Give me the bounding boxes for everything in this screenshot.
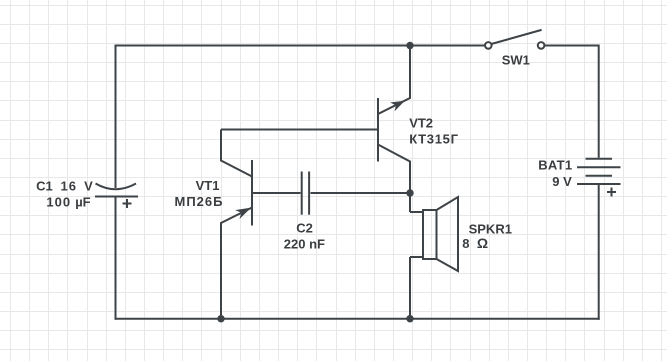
node A junction C2 / VT2 bottom lead / speaker: [406, 189, 413, 196]
wire left rail lower (C1 bottom plate to bottom rail): [115, 197, 117, 320]
svg-text:Ω: Ω: [477, 235, 488, 251]
svg-text:9 V: 9 V: [552, 174, 572, 189]
svg-text:VT2: VT2: [409, 115, 433, 130]
svg-text:МП26Б: МП26Б: [175, 194, 224, 209]
node junction VT1 emitter / bottom rail: [217, 315, 224, 322]
svg-text:µF: µF: [75, 194, 90, 209]
svg-text:BAT1: BAT1: [538, 158, 572, 173]
svg-text:SPKR1: SPKR1: [469, 221, 512, 236]
wire left rail upper (top rail to C1 top plate): [115, 45, 117, 189]
wire speaker to bottom rail: [409, 257, 411, 320]
wire VT1 collector to VT2 base: [221, 129, 378, 131]
wire right rail lower (BAT1 bottom plate to bottom rail): [598, 184, 600, 320]
node junction speaker / bottom rail: [406, 315, 413, 322]
svg-text:VT1: VT1: [196, 178, 220, 193]
svg-text:V: V: [84, 178, 93, 193]
value label 100 µF: [46, 194, 90, 209]
transistor VT2 (NPN, base bar, top lead with arrow to top rail, bottom lead to node A): [378, 46, 410, 213]
wire VT1 base to C2 left plate: [253, 192, 301, 194]
capacitor C2 (two vertical plates): [302, 172, 309, 215]
svg-text:16: 16: [61, 178, 77, 193]
wire SW1 right terminal to right rail: [545, 45, 599, 47]
wire top rail (battery + to SW1 and C1): [115, 45, 485, 47]
battery BAT1 (four plates, plus sign at bottom): [577, 159, 621, 197]
wire C2 right plate to node A: [311, 192, 411, 194]
node junction top rail / VT2 top lead: [406, 42, 413, 49]
switch SW1 (open SPST, two terminal circles and lever): [485, 30, 544, 49]
wire speaker top terminal: [410, 211, 423, 213]
svg-text:КТ315Г: КТ315Г: [409, 131, 458, 146]
speaker SPKR1 (coil box and cone): [423, 197, 458, 271]
svg-text:220 nF: 220 nF: [284, 237, 325, 252]
transistor VT1 (PNP, base bar, collector up-left, emitter down-left with arrow): [221, 130, 252, 319]
value label 16 V: [61, 178, 94, 193]
wire right rail upper (to BAT1 top plate): [598, 45, 600, 158]
svg-text:C2: C2: [296, 220, 313, 235]
capacitor C1 (polarized, curved top plate, straight bottom plate, plus sign): [95, 184, 138, 209]
svg-text:SW1: SW1: [502, 52, 530, 67]
svg-text:100: 100: [46, 194, 71, 209]
value label 8 Ω: [462, 235, 488, 251]
svg-text:8: 8: [462, 236, 469, 251]
wire bottom rail: [115, 318, 600, 320]
wire speaker bottom terminal: [410, 256, 423, 258]
svg-text:C1: C1: [36, 178, 53, 193]
